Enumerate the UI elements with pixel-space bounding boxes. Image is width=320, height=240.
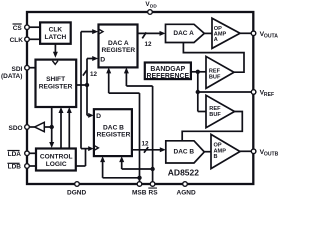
wire SDI to SHIFT REGISTER: [29, 67, 36, 69]
node VREF junction: [196, 90, 200, 94]
svg-text:REFERENCE: REFERENCE: [147, 73, 190, 80]
RS branch to DAC B REGISTER: [119, 156, 152, 169]
svg-text:RS: RS: [149, 190, 159, 197]
svg-text:DD: DD: [150, 3, 157, 8]
clk-latch U1: [40, 22, 71, 43]
control logic U6: [36, 149, 76, 171]
wire OP AMP B to VOUTB: [240, 150, 254, 152]
svg-text:CLK: CLK: [10, 37, 24, 44]
svg-text:BANDGAP: BANDGAP: [150, 66, 185, 73]
svg-text:REF: REF: [264, 92, 274, 98]
MSB branch to DAC B REGISTER: [100, 156, 139, 178]
clock wire from CONTROL LOGIC to register clocks: [76, 29, 98, 166]
shift register U2: [36, 60, 77, 107]
bus slash 12: [83, 70, 98, 78]
vertical reference rail: [197, 72, 199, 112]
svg-text:MSB: MSB: [132, 190, 147, 197]
svg-text:B: B: [214, 154, 218, 160]
wire DAC B to OP AMP B: [204, 151, 211, 153]
svg-text:12: 12: [145, 41, 153, 48]
pin VOUTA: [251, 31, 256, 36]
pin LDA: [25, 151, 30, 156]
svg-text:LDA: LDA: [8, 151, 22, 158]
wire LDA to CONTROL LOGIC: [29, 152, 36, 154]
control logic to shift register arrows: [59, 107, 72, 149]
svg-text:DAC B: DAC B: [103, 124, 124, 131]
label RS: [148, 188, 158, 197]
svg-text:OUTA: OUTA: [264, 34, 278, 40]
svg-text:AD8522: AD8522: [168, 167, 199, 177]
ref buf B path into DAC B: [182, 112, 242, 142]
label SDI (DATA): [1, 66, 23, 80]
label LDB: [7, 163, 21, 171]
svg-text:(DATA): (DATA): [1, 73, 22, 80]
bus wire to DAC A REGISTER D input: [87, 56, 98, 85]
wire SHIFT REGISTER to bus node: [76, 84, 87, 86]
MSB line: [106, 67, 139, 184]
wire DAC B REGISTER to DAC B with slash: [132, 141, 166, 153]
SDO buffer U5: [29, 122, 52, 131]
pin RS: [150, 182, 155, 187]
pin VOUTB: [251, 149, 256, 154]
svg-text:DAC A: DAC A: [108, 40, 129, 47]
op-amp B U11: [211, 134, 240, 168]
label VOUTA: [260, 31, 279, 40]
svg-text:LOGIC: LOGIC: [46, 161, 67, 168]
wire CLK to CLK LATCH: [29, 38, 40, 40]
svg-text:AGND: AGND: [177, 190, 196, 197]
ref buf A feedback path into DAC A: [183, 43, 244, 73]
node RS junction: [150, 167, 154, 171]
svg-text:CONTROL: CONTROL: [40, 154, 73, 161]
node bus junction: [85, 83, 89, 87]
pin CS: [25, 25, 30, 30]
pin VREF: [251, 90, 256, 95]
svg-text:CLK: CLK: [49, 27, 63, 34]
svg-text:REGISTER: REGISTER: [97, 132, 131, 139]
pin SDI: [25, 65, 30, 70]
svg-text:BUF: BUF: [209, 112, 221, 118]
svg-text:DGND: DGND: [67, 190, 86, 197]
ref buf B U10: [206, 95, 235, 127]
label VREF: [260, 90, 274, 99]
ref buf A U8: [206, 56, 234, 88]
bus wire to DAC B REGISTER D input: [87, 85, 94, 118]
RS line: [124, 67, 153, 184]
svg-text:DAC A: DAC A: [173, 30, 194, 37]
pin AGND: [183, 182, 188, 187]
svg-text:LDB: LDB: [8, 164, 22, 171]
label VDD: [145, 1, 157, 8]
wire into REF BUF B: [198, 111, 206, 113]
pin CLK: [25, 37, 30, 42]
svg-text:SDO: SDO: [9, 125, 23, 132]
label CS: [13, 23, 23, 32]
wire to VREF pin: [198, 91, 254, 93]
pin DGND: [75, 182, 80, 187]
DAC A D1: [166, 24, 205, 42]
svg-text:SHIFT: SHIFT: [46, 76, 65, 83]
svg-text:OUTB: OUTB: [264, 152, 279, 158]
pin LDB: [25, 164, 30, 169]
chip border: [27, 12, 253, 184]
svg-text:REGISTER: REGISTER: [101, 47, 135, 54]
SDO line from SHIFT REGISTER to CONTROL LOGIC: [49, 107, 54, 148]
svg-text:A: A: [214, 37, 218, 43]
svg-text:D: D: [100, 56, 105, 63]
wire OP AMP A to VOUTA: [240, 32, 254, 34]
svg-text:D: D: [96, 113, 101, 120]
node SDO junction: [50, 125, 54, 129]
bandgap reference U9: [145, 63, 191, 81]
wire CLK LATCH to SHIFT REGISTER clock: [53, 44, 58, 58]
op-amp A U7: [212, 18, 240, 48]
svg-text:LATCH: LATCH: [44, 34, 66, 41]
wire bandgap to ref bufs: [191, 71, 206, 73]
pin MSB: [137, 182, 142, 187]
svg-text:12: 12: [142, 141, 150, 148]
dac A register U3: [99, 25, 138, 68]
svg-text:12: 12: [90, 71, 98, 78]
wire LDB to CONTROL LOGIC: [29, 165, 36, 167]
label LDA: [7, 150, 21, 158]
svg-text:CS: CS: [13, 25, 23, 32]
svg-text:BUF: BUF: [209, 74, 221, 80]
node MSB junction: [137, 176, 141, 180]
dac B register U4: [94, 109, 132, 156]
wire DAC A REGISTER to DAC A with bus slash: [138, 31, 166, 48]
pin VDD: [148, 10, 153, 15]
label VOUTB: [260, 149, 279, 158]
svg-text:DAC B: DAC B: [174, 149, 195, 156]
node bandgap junction: [196, 70, 200, 74]
wire DAC A to OP AMP A: [204, 32, 212, 34]
wire CS to CLK LATCH: [29, 26, 40, 28]
DAC B D2: [166, 141, 205, 163]
svg-text:REGISTER: REGISTER: [39, 84, 73, 91]
pin SDO: [25, 125, 30, 130]
